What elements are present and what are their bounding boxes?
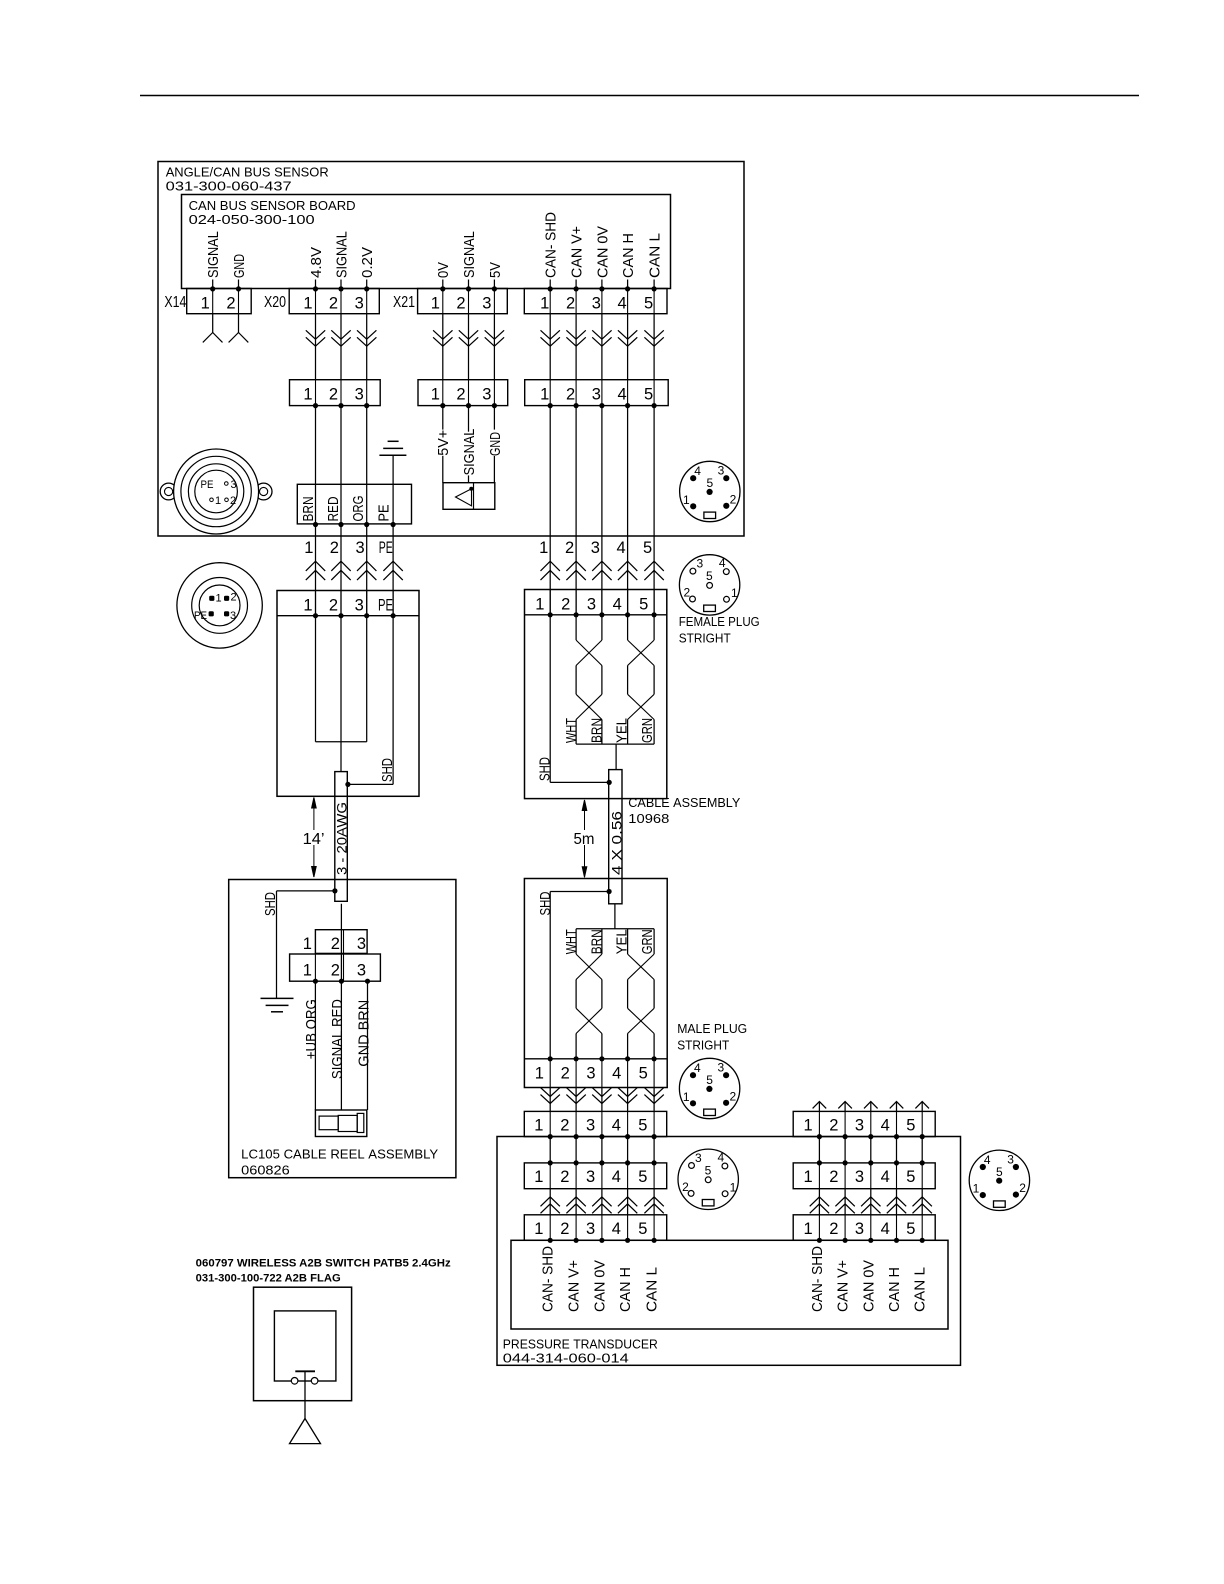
wire right 3 A-B bbox=[870, 1137, 872, 1163]
chevron X21-3 bbox=[485, 330, 504, 339]
svg-text:SIGNAL: SIGNAL bbox=[333, 231, 350, 278]
junction dot GND bbox=[236, 286, 241, 291]
svg-text:1: 1 bbox=[534, 1117, 543, 1135]
svg-text:4: 4 bbox=[618, 385, 627, 403]
wire 2 inside bbox=[340, 616, 342, 772]
wire left 5 B-C bbox=[653, 1189, 655, 1215]
wire stub 4.8V bbox=[315, 280, 317, 290]
box LC105 cable reel assembly bbox=[229, 880, 456, 1178]
chevron CAN-1 bbox=[541, 330, 560, 339]
svg-text:CAN 0V: CAN 0V bbox=[591, 1260, 608, 1312]
svg-text:5: 5 bbox=[906, 1220, 915, 1238]
svg-text:4: 4 bbox=[618, 294, 627, 312]
svg-text:CAN- SHD: CAN- SHD bbox=[809, 1246, 826, 1312]
wire X20-2 to plug row bbox=[340, 314, 342, 380]
chevron up right 3 bbox=[861, 1197, 880, 1206]
svg-text:5: 5 bbox=[996, 1165, 1003, 1179]
socket box reel lower bbox=[290, 954, 381, 981]
svg-text:3: 3 bbox=[592, 294, 601, 312]
junction dot CAN 0V bbox=[599, 286, 604, 291]
svg-text:4: 4 bbox=[612, 1220, 621, 1238]
wire stub CAN V+ bbox=[575, 280, 577, 290]
svg-text:2: 2 bbox=[331, 961, 340, 979]
wire X21-2 upper bbox=[468, 406, 470, 432]
shield junction dot bbox=[345, 782, 350, 787]
chevron X21-1 bbox=[433, 330, 452, 339]
svg-text:4: 4 bbox=[717, 1150, 724, 1164]
svg-text:3: 3 bbox=[357, 961, 366, 979]
wire X14-1 with open fork bbox=[212, 314, 214, 333]
box A2B switch outer bbox=[254, 1287, 352, 1401]
svg-text:031-300-100-722 A2B FLAG: 031-300-100-722 A2B FLAG bbox=[196, 1273, 341, 1285]
svg-text:3: 3 bbox=[355, 596, 364, 614]
svg-text:3: 3 bbox=[855, 1117, 864, 1135]
svg-text:5: 5 bbox=[706, 569, 713, 583]
wire to cable female bbox=[615, 744, 617, 770]
connector X20 pin row bbox=[289, 289, 379, 314]
wire X21-1 upper bbox=[442, 406, 444, 430]
svg-text:1: 1 bbox=[804, 1168, 813, 1186]
svg-text:3: 3 bbox=[587, 595, 596, 613]
svg-text:3: 3 bbox=[717, 1061, 724, 1075]
wire X21-3 upper bbox=[493, 406, 495, 430]
chevron CAN-5 bbox=[644, 330, 663, 339]
svg-text:SHD: SHD bbox=[262, 892, 279, 916]
svg-text:3: 3 bbox=[855, 1168, 864, 1186]
svg-text:STRIGHT: STRIGHT bbox=[677, 1038, 729, 1053]
chevron CAN-3 bbox=[592, 330, 611, 339]
svg-text:GND BRN: GND BRN bbox=[356, 1000, 373, 1067]
svg-text:1: 1 bbox=[303, 596, 312, 614]
junction dot CAN L bbox=[652, 286, 657, 291]
junction dots cable entry bbox=[313, 522, 318, 527]
svg-text:2: 2 bbox=[560, 1220, 569, 1238]
chevron down male-2 bbox=[566, 1088, 585, 1097]
terminal box left B bbox=[524, 1163, 666, 1189]
svg-text:0V: 0V bbox=[435, 262, 452, 278]
svg-text:1: 1 bbox=[534, 1220, 543, 1238]
svg-text:3: 3 bbox=[591, 539, 600, 557]
svg-text:5: 5 bbox=[638, 1220, 647, 1238]
svg-text:4.8V: 4.8V bbox=[308, 247, 325, 278]
svg-text:024-050-300-100: 024-050-300-100 bbox=[189, 212, 315, 227]
wire right 1 B-C bbox=[818, 1189, 820, 1215]
twisted pair 4-5 female bbox=[627, 615, 629, 640]
svg-text:2: 2 bbox=[829, 1117, 838, 1135]
chevron CAN-4 bbox=[618, 330, 637, 339]
junction dots left B bbox=[548, 1160, 553, 1165]
svg-text:CAN V+: CAN V+ bbox=[835, 1260, 852, 1312]
box reel cable connector bbox=[277, 591, 419, 797]
wire X20-3 to plug row bbox=[366, 314, 368, 380]
chevron X20-1 bbox=[306, 330, 325, 339]
svg-text:2: 2 bbox=[329, 385, 338, 403]
svg-text:4: 4 bbox=[881, 1168, 890, 1186]
wire X21-3 to plug row bbox=[493, 314, 495, 380]
svg-text:2: 2 bbox=[230, 592, 236, 604]
svg-text:4: 4 bbox=[612, 1064, 621, 1082]
wire right 2 A-B bbox=[844, 1137, 846, 1163]
wire X20-2 down to cable entry bbox=[340, 406, 342, 525]
svg-text:5: 5 bbox=[705, 1163, 712, 1177]
svg-text:2: 2 bbox=[829, 1220, 838, 1238]
svg-text:5: 5 bbox=[906, 1168, 915, 1186]
svg-text:SIGNAL: SIGNAL bbox=[461, 231, 478, 278]
svg-text:1: 1 bbox=[539, 539, 548, 557]
svg-text:2: 2 bbox=[560, 1117, 569, 1135]
svg-text:1: 1 bbox=[303, 961, 312, 979]
junction dot SIGNAL bbox=[210, 286, 215, 291]
svg-text:060797 WIRELESS A2B SWITCH PAT: 060797 WIRELESS A2B SWITCH PATB5 2.4GHz bbox=[196, 1258, 452, 1270]
svg-text:CAN L: CAN L bbox=[647, 233, 664, 278]
wire right 3 B-C bbox=[870, 1189, 872, 1215]
sensor triangle bbox=[456, 489, 472, 506]
junction dot CAN V+ bbox=[574, 286, 579, 291]
wire PE from ground bbox=[392, 455, 394, 524]
connector view CAN board plug bbox=[680, 461, 740, 521]
box female plug bbox=[525, 590, 667, 799]
sensor wiper dot bbox=[469, 487, 473, 491]
svg-text:GRN: GRN bbox=[639, 718, 656, 743]
wire CAN-3 to plug row bbox=[601, 314, 603, 380]
chevron up left 5 bbox=[644, 1197, 663, 1206]
svg-text:2: 2 bbox=[565, 539, 574, 557]
svg-text:1: 1 bbox=[683, 1090, 690, 1104]
junction dots left A bbox=[548, 1134, 553, 1139]
chevron up CAN-1 bbox=[541, 561, 560, 571]
pin strip line female bbox=[525, 614, 667, 616]
junction dot SIGNAL bbox=[338, 286, 343, 291]
wire left 4 A-B bbox=[627, 1137, 629, 1163]
wire CAN-1 to female plug bbox=[549, 406, 551, 615]
chevron down male-1 bbox=[541, 1088, 560, 1097]
chevron CAN-2 bbox=[566, 330, 585, 339]
junction dot CAN- SHD bbox=[548, 286, 553, 291]
wire SHD reel drop bbox=[277, 890, 335, 892]
top rule bbox=[140, 95, 1139, 97]
svg-text:4: 4 bbox=[694, 464, 701, 478]
junction dots right B bbox=[817, 1160, 822, 1165]
wire left 2 B-C bbox=[575, 1189, 577, 1215]
junction dot 0.2V bbox=[364, 286, 369, 291]
wire 2 through reel boxes bbox=[340, 904, 342, 1110]
svg-text:2: 2 bbox=[1019, 1181, 1026, 1195]
svg-text:FEMALE PLUG: FEMALE PLUG bbox=[679, 614, 760, 629]
dimension arrow 14ft bbox=[313, 798, 315, 831]
svg-text:2: 2 bbox=[226, 294, 235, 312]
svg-text:1: 1 bbox=[731, 586, 738, 600]
svg-text:1: 1 bbox=[804, 1220, 813, 1238]
svg-text:WHT: WHT bbox=[563, 718, 580, 743]
chevron up right 4 bbox=[887, 1197, 906, 1206]
svg-text:1: 1 bbox=[303, 294, 312, 312]
bus arrow right 3 bbox=[870, 1102, 872, 1112]
wire 3 to reel bbox=[367, 981, 369, 1110]
svg-text:1: 1 bbox=[683, 493, 690, 507]
chevron up left 3 bbox=[592, 1197, 611, 1206]
svg-text:5: 5 bbox=[644, 385, 653, 403]
wire stub SIGNAL bbox=[212, 280, 214, 290]
box male plug bbox=[524, 879, 667, 1088]
svg-text:5V: 5V bbox=[487, 262, 504, 278]
svg-text:3: 3 bbox=[230, 479, 236, 491]
svg-text:4: 4 bbox=[694, 1061, 701, 1075]
svg-text:1: 1 bbox=[540, 385, 549, 403]
svg-text:031-300-060-437: 031-300-060-437 bbox=[166, 179, 292, 194]
ground symbol PE (inverted) bbox=[388, 440, 399, 442]
wire right 5 B-C bbox=[921, 1189, 923, 1215]
terminal box right B bbox=[793, 1163, 935, 1189]
svg-text:X21: X21 bbox=[393, 294, 415, 311]
svg-text:2: 2 bbox=[561, 1064, 570, 1082]
svg-text:3: 3 bbox=[482, 294, 491, 312]
svg-text:LC105 CABLE REEL ASSEMBLY: LC105 CABLE REEL ASSEMBLY bbox=[241, 1147, 438, 1162]
wire X21-3 lower bbox=[493, 456, 495, 483]
svg-text:4: 4 bbox=[613, 595, 622, 613]
twisted pair 2-3 female bbox=[575, 615, 577, 640]
junction dots right C bbox=[817, 1238, 822, 1243]
svg-text:PE: PE bbox=[201, 479, 214, 491]
box pressure transducer bbox=[497, 1137, 961, 1366]
junction dot 4.8V bbox=[313, 286, 318, 291]
wire right 4 A-B bbox=[896, 1137, 898, 1163]
wire CAN-2 to female plug bbox=[575, 406, 577, 615]
svg-text:1: 1 bbox=[303, 385, 312, 403]
wire 1 inside bbox=[315, 616, 317, 742]
svg-text:CAN- SHD: CAN- SHD bbox=[543, 212, 560, 278]
wire left 2 A-B bbox=[575, 1137, 577, 1163]
cable 3x20AWG bbox=[335, 772, 348, 902]
svg-text:3: 3 bbox=[718, 464, 725, 478]
svg-text:2: 2 bbox=[560, 1168, 569, 1186]
svg-text:CAN- SHD: CAN- SHD bbox=[540, 1246, 557, 1312]
shield dot female cable bbox=[607, 780, 612, 785]
svg-text:GND: GND bbox=[231, 254, 248, 278]
junction dots pin strip bbox=[313, 613, 318, 618]
svg-text:4: 4 bbox=[612, 1117, 621, 1135]
svg-text:1: 1 bbox=[431, 385, 440, 403]
junction dots left C bbox=[548, 1238, 553, 1243]
junction dot CAN H bbox=[625, 286, 630, 291]
svg-text:4 X 0.56: 4 X 0.56 bbox=[608, 811, 624, 875]
svg-text:3: 3 bbox=[586, 1117, 595, 1135]
svg-text:4: 4 bbox=[617, 539, 626, 557]
svg-text:2: 2 bbox=[566, 294, 575, 312]
wire left 4 B-C bbox=[627, 1189, 629, 1215]
svg-text:1: 1 bbox=[215, 495, 221, 507]
svg-text:+UB ORG: +UB ORG bbox=[303, 999, 320, 1059]
svg-text:SHD: SHD bbox=[537, 757, 554, 781]
chevron up CAN-3 bbox=[592, 561, 611, 571]
ground symbol LC105 bbox=[261, 997, 294, 999]
wire left 1 A-B bbox=[549, 1137, 551, 1163]
svg-text:2: 2 bbox=[684, 586, 691, 600]
svg-text:3: 3 bbox=[357, 935, 366, 953]
svg-text:SIGNAL: SIGNAL bbox=[205, 231, 222, 278]
svg-text:4: 4 bbox=[984, 1153, 991, 1167]
plug row X21 bbox=[418, 380, 508, 406]
switch stem / antenna feed bbox=[304, 1371, 306, 1418]
chevron up 2 bbox=[331, 561, 350, 571]
wire 1 to reel cable box bbox=[315, 525, 317, 616]
box wire colors BRN RED ORG PE bbox=[297, 484, 411, 524]
twisted pair 4-5 male bbox=[627, 929, 629, 954]
wire 1 to reel bbox=[314, 981, 316, 1110]
chevron down male-3 bbox=[592, 1088, 611, 1097]
connector sensor socket face bbox=[177, 563, 262, 648]
pin strip line bbox=[277, 615, 419, 617]
wire PE to reel cable box bbox=[392, 525, 394, 616]
wire stub CAN H bbox=[627, 280, 629, 290]
svg-text:PE: PE bbox=[379, 539, 393, 557]
wire X21-2 lower bbox=[468, 475, 470, 482]
chevron up PE bbox=[383, 561, 402, 571]
wire PE to shield bbox=[392, 616, 394, 785]
wire left 3 B-C bbox=[601, 1189, 603, 1215]
wire stub 0V bbox=[442, 280, 444, 290]
svg-text:3: 3 bbox=[855, 1220, 864, 1238]
svg-text:BRN: BRN bbox=[589, 718, 606, 743]
wire CAN-4 to female plug bbox=[627, 406, 629, 615]
plug box reel upper bbox=[315, 930, 367, 954]
svg-text:2: 2 bbox=[330, 539, 339, 557]
svg-text:2: 2 bbox=[331, 935, 340, 953]
wire join 1-3 bbox=[316, 741, 367, 743]
bus arrow right 1 bbox=[818, 1102, 820, 1112]
wire stub SIGNAL bbox=[468, 280, 470, 290]
svg-text:CAN H: CAN H bbox=[886, 1267, 903, 1312]
chevron up left 4 bbox=[618, 1197, 637, 1206]
box CAN BUS SENSOR BOARD bbox=[182, 195, 671, 289]
wire 3 to reel cable box bbox=[366, 525, 368, 616]
svg-text:5V+: 5V+ bbox=[435, 430, 452, 456]
reel icon bbox=[315, 1110, 366, 1137]
svg-text:2: 2 bbox=[329, 596, 338, 614]
dimension arrow 5m bbox=[584, 800, 586, 830]
wire CAN-2 to plug row bbox=[575, 314, 577, 380]
svg-text:WHT: WHT bbox=[563, 929, 580, 954]
svg-text:CAN H: CAN H bbox=[617, 1267, 634, 1312]
connector view transducer female bbox=[678, 1149, 738, 1209]
shield dot male cable bbox=[607, 889, 612, 894]
svg-text:ORG: ORG bbox=[350, 496, 367, 522]
bus arrow right 2 bbox=[844, 1102, 846, 1112]
wire stub CAN L bbox=[653, 280, 655, 290]
box transducer body bbox=[511, 1240, 948, 1329]
plug row X20 bbox=[290, 380, 381, 406]
svg-text:CAN H: CAN H bbox=[620, 233, 637, 278]
bus arrow right 5 bbox=[921, 1102, 923, 1112]
junction dots reel lower bbox=[313, 979, 318, 984]
svg-text:3: 3 bbox=[695, 1151, 702, 1165]
svg-text:5: 5 bbox=[644, 294, 653, 312]
svg-text:3: 3 bbox=[1007, 1152, 1014, 1166]
junction dot 0V bbox=[440, 286, 445, 291]
svg-text:4: 4 bbox=[719, 556, 726, 570]
wire right 4 B-C bbox=[896, 1189, 898, 1215]
chevron up CAN-4 bbox=[618, 561, 637, 571]
junction dots male pins bbox=[548, 1056, 553, 1061]
wire 3 inside bbox=[366, 616, 368, 742]
svg-text:044-314-060-014: 044-314-060-014 bbox=[503, 1350, 629, 1365]
svg-text:X14: X14 bbox=[164, 294, 186, 311]
svg-text:CABLE ASSEMBLY: CABLE ASSEMBLY bbox=[628, 795, 740, 810]
svg-text:4: 4 bbox=[612, 1168, 621, 1186]
svg-text:3: 3 bbox=[586, 1064, 595, 1082]
chevron up 1 bbox=[306, 561, 325, 571]
svg-text:ANGLE/CAN BUS SENSOR: ANGLE/CAN BUS SENSOR bbox=[166, 165, 329, 180]
svg-text:CAN 0V: CAN 0V bbox=[860, 1260, 877, 1312]
svg-text:1: 1 bbox=[303, 935, 312, 953]
svg-text:1: 1 bbox=[431, 294, 440, 312]
svg-text:2: 2 bbox=[456, 385, 465, 403]
svg-text:CAN 0V: CAN 0V bbox=[594, 226, 611, 278]
svg-text:5: 5 bbox=[638, 1117, 647, 1135]
svg-text:1: 1 bbox=[535, 595, 544, 613]
svg-text:1: 1 bbox=[215, 593, 221, 605]
svg-text:1: 1 bbox=[304, 539, 313, 557]
wire male-1 to transducer bbox=[549, 1088, 551, 1112]
svg-text:2: 2 bbox=[561, 595, 570, 613]
svg-text:3: 3 bbox=[356, 539, 365, 557]
chevron down male-4 bbox=[618, 1088, 637, 1097]
svg-text:2: 2 bbox=[329, 294, 338, 312]
wire left 3 A-B bbox=[601, 1137, 603, 1163]
terminal box left A bbox=[524, 1111, 666, 1136]
chevron up 3 bbox=[357, 561, 376, 571]
svg-text:5: 5 bbox=[906, 1117, 915, 1135]
connector flanged sensor socket bbox=[160, 449, 272, 534]
wire X21-1 lower bbox=[442, 456, 444, 483]
antenna triangle bbox=[290, 1419, 321, 1444]
svg-text:5: 5 bbox=[638, 1168, 647, 1186]
terminal box right C bbox=[793, 1215, 935, 1241]
wire X14-2 with open fork bbox=[238, 314, 240, 333]
svg-text:CAN L: CAN L bbox=[644, 1267, 661, 1312]
svg-text:PE: PE bbox=[378, 596, 393, 614]
chevron up CAN-5 bbox=[644, 561, 663, 571]
connector view female plug bbox=[679, 555, 739, 615]
svg-text:2: 2 bbox=[230, 495, 236, 507]
switch contact circles bbox=[291, 1378, 298, 1385]
chevron X21-2 bbox=[459, 330, 478, 339]
svg-text:GND: GND bbox=[487, 432, 504, 456]
connector view male plug bbox=[679, 1058, 739, 1118]
terminal box right A bbox=[793, 1111, 935, 1136]
junction dots right A bbox=[817, 1134, 822, 1139]
wire stub 5V bbox=[493, 280, 495, 290]
svg-text:3: 3 bbox=[696, 557, 703, 571]
wire left 5 A-B bbox=[653, 1137, 655, 1163]
chevron up left 2 bbox=[566, 1197, 585, 1206]
junction dots plug rows bbox=[313, 403, 318, 408]
wire CAN-1 to plug row bbox=[549, 314, 551, 380]
chevron up right 2 bbox=[835, 1197, 854, 1206]
svg-text:3: 3 bbox=[355, 385, 364, 403]
wire male-3 to transducer bbox=[601, 1088, 603, 1112]
wire CAN-3 to female plug bbox=[601, 406, 603, 615]
svg-text:1: 1 bbox=[201, 294, 210, 312]
wire stub CAN- SHD bbox=[549, 280, 551, 290]
chevron up right 1 bbox=[810, 1197, 829, 1206]
twisted pair 2-3 male bbox=[575, 929, 577, 954]
svg-text:3: 3 bbox=[586, 1168, 595, 1186]
chevron up CAN-2 bbox=[566, 561, 585, 571]
svg-text:2: 2 bbox=[729, 1089, 736, 1103]
svg-text:CAN BUS SENSOR BOARD: CAN BUS SENSOR BOARD bbox=[189, 198, 356, 213]
junction dot 5V bbox=[492, 286, 497, 291]
svg-text:5: 5 bbox=[639, 1064, 648, 1082]
